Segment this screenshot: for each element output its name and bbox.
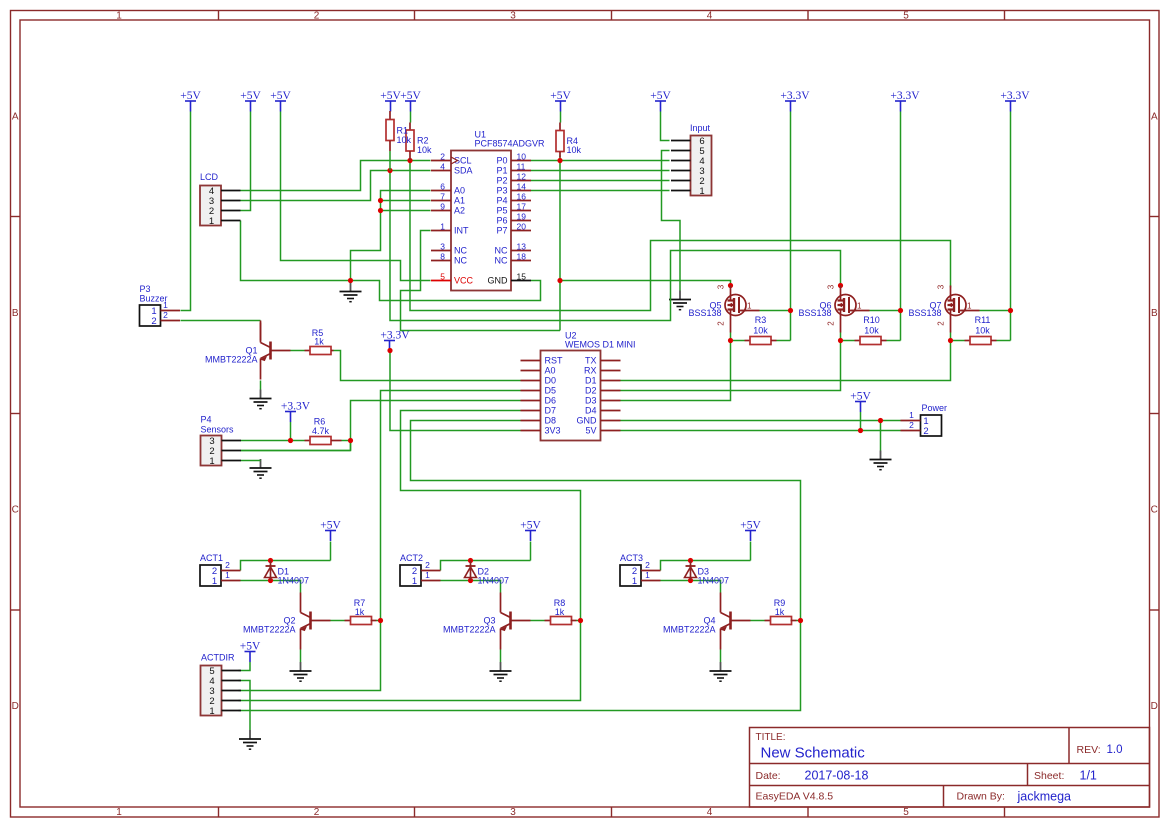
- wire +3.3V rail to R10/Q6 gate: [841, 112, 901, 341]
- svg-text:A2: A2: [454, 206, 465, 216]
- connector ACTDIR: [201, 653, 242, 718]
- svg-text:18: 18: [517, 252, 527, 262]
- svg-text:B: B: [1151, 308, 1158, 319]
- svg-text:R10: R10: [863, 315, 880, 325]
- svg-text:1: 1: [116, 807, 122, 818]
- svg-text:MMBT2222A: MMBT2222A: [243, 625, 296, 635]
- U2 pin D0: [521, 376, 557, 386]
- svg-text:A0: A0: [454, 186, 465, 196]
- mosfet Q7 BSS138: [908, 284, 979, 332]
- svg-text:17: 17: [517, 202, 527, 212]
- svg-text:Sensors: Sensors: [201, 425, 235, 435]
- svg-text:D5: D5: [545, 386, 557, 396]
- resistor R2 10k: [406, 123, 432, 161]
- svg-text:1: 1: [909, 410, 914, 420]
- wire D5 net (WEMOS D5 / R7 / ACTDIR pin3): [239, 391, 521, 691]
- U2 pin 3V3: [521, 426, 561, 436]
- svg-text:ACT3: ACT3: [620, 553, 643, 563]
- connector Power: [901, 403, 948, 437]
- svg-text:10k: 10k: [753, 326, 768, 336]
- wire +3.3V to WEMOS 3V3: [390, 351, 521, 431]
- mosfet Q5 BSS138: [688, 284, 759, 332]
- power flag +5V (R2): [400, 90, 421, 111]
- svg-text:NC: NC: [495, 246, 508, 256]
- power flag +5V (ACT2): [520, 520, 541, 541]
- wire ACTDIR pin4 to ground: [239, 681, 251, 731]
- wire P4 pin1 to ground: [241, 460, 261, 462]
- junction R10 left: [838, 338, 843, 343]
- junction Q5 drain: [728, 283, 733, 288]
- svg-text:BSS138: BSS138: [688, 308, 721, 318]
- wire ACT2 pin1 / D2 / Q3 collector: [441, 581, 501, 593]
- svg-text:P5: P5: [496, 206, 507, 216]
- resistor R5 1k: [305, 328, 334, 355]
- svg-text:MMBT2222A: MMBT2222A: [663, 625, 716, 635]
- svg-text:4: 4: [707, 11, 713, 22]
- ic U2 WEMOS D1 MINI: [541, 331, 636, 441]
- svg-text:1: 1: [225, 570, 230, 580]
- svg-text:MMBT2222A: MMBT2222A: [443, 625, 496, 635]
- svg-text:3: 3: [440, 242, 445, 252]
- ground (U1 A-net): [340, 283, 362, 302]
- svg-text:P1: P1: [496, 166, 507, 176]
- wire SCL net (U1 SCL / R2 / LCD pin4): [241, 161, 431, 191]
- U1 pin 19 P6: [496, 212, 531, 226]
- wire +5V to Input pin6: [661, 112, 670, 141]
- svg-text:RST: RST: [545, 356, 564, 366]
- wire Q2 emitter to ground: [300, 650, 302, 663]
- ic U1 PCF8574ADGVR: [451, 130, 545, 291]
- power flag +5V (R4): [550, 90, 571, 111]
- transistor Q2 MMBT2222A: [243, 593, 331, 650]
- wire +3.3V rail to R11/Q7 gate: [951, 112, 1011, 341]
- svg-text:C: C: [1151, 504, 1158, 515]
- wire U1 P0 to Input pin4: [531, 160, 670, 162]
- svg-text:1k: 1k: [314, 337, 324, 347]
- wire Q4 emitter to ground: [720, 650, 722, 663]
- svg-text:1: 1: [967, 302, 972, 311]
- wire R5 to WEMOS D0: [334, 351, 521, 381]
- wire ACT1 pin1 / D1 / Q2 collector: [241, 581, 301, 593]
- junction +3.3V R6: [288, 438, 293, 443]
- svg-text:D1: D1: [585, 376, 597, 386]
- wire R9 to D8 net: [797, 620, 801, 622]
- svg-text:1: 1: [209, 456, 214, 467]
- svg-text:13: 13: [517, 242, 527, 252]
- ground (Q4 emitter): [710, 662, 732, 681]
- wire SDA net (U1 SDA / R1 / LCD pin3): [241, 171, 431, 201]
- power flag +5V (U1 VCC): [270, 90, 291, 111]
- svg-text:LCD: LCD: [200, 172, 219, 182]
- wire WEMOS D2 to Q6 source: [621, 341, 841, 391]
- resistor R9 1k: [765, 598, 797, 625]
- svg-text:NC: NC: [495, 256, 508, 266]
- svg-text:A: A: [1151, 111, 1158, 122]
- wire R8 to D7 net: [577, 620, 581, 622]
- connector ACT1: [200, 553, 241, 587]
- svg-text:3: 3: [510, 807, 516, 818]
- U1 pin 3 NC: [431, 242, 467, 256]
- svg-text:2: 2: [425, 560, 430, 570]
- junction A2 gnd: [378, 208, 383, 213]
- ground (Q3 emitter): [490, 662, 512, 681]
- U1 pin 11 P1: [496, 162, 531, 176]
- svg-text:1: 1: [699, 186, 704, 197]
- svg-text:R1: R1: [397, 126, 409, 136]
- svg-text:Drawn By:: Drawn By:: [957, 791, 1005, 803]
- wire U1 P1 to Input pin3: [531, 170, 670, 172]
- power flag +5V (ACT1): [320, 520, 341, 541]
- junction Q6 drain: [838, 283, 843, 288]
- junction D1 top: [268, 558, 273, 563]
- junction D2 top: [468, 558, 473, 563]
- svg-text:TITLE:: TITLE:: [756, 732, 786, 743]
- svg-text:1.0: 1.0: [1107, 744, 1123, 756]
- U1 pin 17 P5: [496, 202, 531, 216]
- svg-text:16: 16: [517, 192, 527, 202]
- svg-text:9: 9: [440, 202, 445, 212]
- wire +5V to LCD pin2: [241, 112, 251, 211]
- junction D2 bottom: [468, 578, 473, 583]
- svg-text:NC: NC: [454, 256, 467, 266]
- junction R4/drain: [557, 278, 562, 283]
- svg-text:BSS138: BSS138: [798, 308, 831, 318]
- frame row ticks left: [11, 216, 21, 218]
- connector Input: [671, 123, 712, 197]
- U2 pin D7: [521, 406, 557, 416]
- svg-text:D7: D7: [545, 406, 557, 416]
- svg-text:ACT1: ACT1: [200, 553, 223, 563]
- svg-text:P7: P7: [496, 226, 507, 236]
- svg-text:D3: D3: [585, 396, 597, 406]
- svg-text:VCC: VCC: [454, 276, 474, 286]
- wire Q1 emitter to ground: [260, 381, 262, 390]
- U1 pin 16 P4: [496, 192, 531, 206]
- junction R4/P0: [557, 158, 562, 163]
- power flag +3.3V (Q6 rail): [890, 90, 920, 111]
- U1 pin 10 P0: [496, 152, 531, 166]
- svg-text:INT: INT: [454, 226, 469, 236]
- svg-text:1: 1: [857, 302, 862, 311]
- wire Input pin5 to ground: [662, 151, 681, 291]
- power flag +3.3V (Q5 rail): [780, 90, 810, 111]
- svg-text:2: 2: [440, 152, 445, 162]
- svg-text:D: D: [12, 701, 19, 712]
- svg-text:P4: P4: [201, 415, 212, 425]
- wire SCL to Q7 drain: [410, 161, 951, 311]
- junction Q7 gate: [1008, 308, 1013, 313]
- resistor R7 1k: [345, 598, 377, 625]
- connector ACT3: [620, 553, 661, 587]
- wire buzzer pin2 to Q1 collector: [181, 320, 261, 322]
- junction A1 gnd: [378, 198, 383, 203]
- junction Q6 gate: [898, 308, 903, 313]
- wire Power ground drop: [880, 421, 882, 451]
- junction R9/D8: [798, 618, 803, 623]
- junction +5V Power: [858, 428, 863, 433]
- U1 pin 6 A0: [431, 182, 465, 196]
- svg-text:4.7k: 4.7k: [312, 426, 330, 436]
- wire D6 net (WEMOS D6 / R6): [241, 401, 521, 451]
- wire P4 pin3 / R6 net: [241, 422, 351, 451]
- svg-text:12: 12: [517, 172, 527, 182]
- svg-text:2: 2: [923, 426, 928, 437]
- frame column ticks bottom: [218, 807, 220, 817]
- U1 pin 13 NC: [495, 242, 532, 256]
- connector P3 Buzzer: [140, 284, 181, 327]
- svg-text:8: 8: [440, 252, 445, 262]
- U2 pin D4: [585, 406, 621, 416]
- power flag +3.3V (R6): [281, 401, 311, 422]
- wire U1 GND net: [351, 281, 541, 301]
- svg-text:1: 1: [209, 216, 214, 227]
- power flag +5V (buzzer rail): [180, 90, 201, 111]
- svg-text:REV:: REV:: [1077, 744, 1101, 756]
- svg-text:P0: P0: [496, 156, 507, 166]
- svg-text:WEMOS D1 MINI: WEMOS D1 MINI: [565, 340, 636, 350]
- wire WEMOS D3 to Q5 source: [621, 341, 731, 401]
- svg-text:Sheet:: Sheet:: [1034, 770, 1064, 782]
- U1 pin 1 INT: [431, 222, 469, 236]
- junction R1/SDA: [387, 168, 392, 173]
- wire R7 to D5 net: [377, 620, 381, 622]
- junction R6/D6: [348, 438, 353, 443]
- U2 pin RX: [584, 366, 621, 376]
- svg-text:1N4007: 1N4007: [698, 576, 730, 586]
- resistor R8 1k: [545, 598, 577, 625]
- svg-text:19: 19: [517, 212, 527, 222]
- junction GND Power: [878, 418, 883, 423]
- U2 pin GND: [577, 416, 621, 426]
- svg-text:New Schematic: New Schematic: [761, 745, 866, 762]
- svg-text:5: 5: [903, 11, 909, 22]
- svg-text:B: B: [12, 308, 19, 319]
- U2 pin RST: [521, 356, 564, 366]
- U1 pin 4 SDA: [431, 162, 473, 176]
- svg-text:P4: P4: [496, 196, 507, 206]
- svg-text:5V: 5V: [585, 426, 596, 436]
- svg-text:20: 20: [517, 222, 527, 232]
- svg-text:Input: Input: [690, 123, 711, 133]
- U1 pin 5 VCC: [431, 272, 474, 286]
- wire +5V to R2: [410, 112, 412, 123]
- svg-text:jackmega: jackmega: [1017, 790, 1072, 804]
- svg-text:1k: 1k: [775, 607, 785, 617]
- wire D8 net (WEMOS D8 / R9 / ACTDIR pin1): [239, 421, 801, 711]
- svg-text:D8: D8: [545, 416, 557, 426]
- svg-text:D: D: [1151, 701, 1158, 712]
- svg-text:15: 15: [517, 272, 527, 282]
- power flag +3.3V (Q7 rail): [1000, 90, 1030, 111]
- svg-text:R2: R2: [417, 136, 429, 146]
- svg-text:2: 2: [314, 11, 320, 22]
- U2 pin D6: [521, 396, 557, 406]
- ground (P4 pin1): [250, 459, 272, 478]
- svg-text:10k: 10k: [975, 326, 990, 336]
- svg-text:2: 2: [909, 420, 914, 430]
- wire Q1 base to R5: [291, 350, 305, 352]
- svg-text:R11: R11: [975, 315, 991, 325]
- svg-text:R6: R6: [314, 417, 326, 427]
- svg-text:1: 1: [747, 302, 752, 311]
- junction R3 left: [728, 338, 733, 343]
- svg-text:GND: GND: [488, 276, 509, 286]
- wire WEMOS D1 to Q7 source: [621, 341, 951, 381]
- svg-text:4: 4: [440, 162, 445, 172]
- junction D3 bottom: [688, 578, 693, 583]
- U1 pin 15 GND: [488, 272, 532, 286]
- svg-text:P6: P6: [496, 216, 507, 226]
- U2 pin TX: [585, 356, 621, 366]
- wire ACTDIR pin5 +5V: [239, 662, 251, 671]
- frame column ticks top: [218, 11, 220, 21]
- ground (Q1 emitter): [250, 390, 272, 409]
- svg-text:14: 14: [517, 182, 527, 192]
- svg-text:TX: TX: [585, 356, 597, 366]
- svg-text:10k: 10k: [567, 145, 582, 155]
- svg-text:1: 1: [212, 576, 217, 587]
- ground (ACTDIR pin4): [239, 730, 261, 749]
- title block: [750, 728, 1150, 808]
- svg-text:1: 1: [440, 222, 445, 232]
- junction R11 left: [948, 338, 953, 343]
- svg-text:3V3: 3V3: [545, 426, 561, 436]
- svg-text:MMBT2222A: MMBT2222A: [205, 355, 258, 365]
- svg-text:P3: P3: [496, 186, 507, 196]
- U1 pin 7 A1: [431, 192, 465, 206]
- wire U1 A0 A1 A2 ground net: [241, 191, 431, 281]
- U2 pin D2: [585, 386, 621, 396]
- svg-text:5: 5: [903, 807, 909, 818]
- svg-text:1: 1: [632, 576, 637, 587]
- svg-text:10k: 10k: [397, 135, 412, 145]
- svg-text:2: 2: [645, 560, 650, 570]
- U2 pin A0: [521, 366, 556, 376]
- svg-text:A: A: [12, 111, 19, 122]
- wire U1 INT / R4 net: [401, 156, 561, 331]
- svg-text:2017-08-18: 2017-08-18: [805, 769, 869, 783]
- junction D3 top: [688, 558, 693, 563]
- wire U1 P2 to Input pin2: [531, 180, 670, 182]
- svg-text:A0: A0: [545, 366, 556, 376]
- wire U1 P3 to Input pin1: [531, 190, 670, 192]
- transistor Q3 MMBT2222A: [443, 593, 531, 650]
- svg-text:EasyEDA V4.8.5: EasyEDA V4.8.5: [756, 791, 834, 803]
- wire +5V to U1 VCC: [281, 112, 431, 281]
- power flag +5V (ACTDIR): [240, 641, 261, 662]
- connector ACT2: [400, 553, 441, 587]
- resistor R10 10k: [855, 315, 887, 345]
- U1 pin 2 SCL: [431, 152, 472, 166]
- resistor R3 10k: [745, 315, 777, 345]
- U1 pin 20 P7: [496, 222, 531, 236]
- svg-text:7: 7: [440, 192, 445, 202]
- transistor Q4 MMBT2222A: [663, 593, 751, 650]
- svg-text:2: 2: [151, 316, 156, 327]
- svg-text:R3: R3: [755, 315, 767, 325]
- svg-text:A1: A1: [454, 196, 465, 206]
- frame row ticks right: [1150, 216, 1160, 218]
- svg-text:1: 1: [209, 706, 214, 717]
- wire ACT3 pin2 +5V: [661, 542, 751, 571]
- wire Q3 base to R8: [531, 620, 545, 622]
- svg-text:1: 1: [645, 570, 650, 580]
- U2 pin D1: [585, 376, 621, 386]
- junction +3.3V 3V3: [387, 348, 392, 353]
- svg-text:1/1: 1/1: [1080, 769, 1097, 783]
- U1 pin 14 P3: [496, 182, 531, 196]
- svg-text:2: 2: [225, 560, 230, 570]
- svg-text:2: 2: [937, 321, 946, 326]
- wire Q4 base to R9: [751, 620, 765, 622]
- svg-text:5: 5: [440, 272, 445, 282]
- U2 pin D5: [521, 386, 557, 396]
- svg-text:ACTDIR: ACTDIR: [201, 653, 235, 663]
- svg-text:GND: GND: [577, 416, 598, 426]
- U1 pin 12 P2: [496, 172, 531, 186]
- svg-text:1: 1: [116, 11, 122, 22]
- svg-text:RX: RX: [584, 366, 597, 376]
- U2 pin D3: [585, 396, 621, 406]
- diode D3 1N4007: [685, 561, 730, 586]
- power flag +5V (R1): [380, 90, 401, 111]
- wire ACT1 pin2 +5V: [241, 542, 331, 571]
- svg-text:SDA: SDA: [454, 166, 473, 176]
- svg-text:2: 2: [717, 321, 726, 326]
- wire D7 net (WEMOS D7 / R8 / ACTDIR pin2): [239, 411, 581, 701]
- power flag +5V (LCD pin2): [240, 90, 261, 111]
- power flag +3.3V (U2 3V3): [380, 330, 410, 351]
- power flag +5V (Power conn): [850, 391, 871, 412]
- svg-text:3: 3: [717, 284, 726, 289]
- diode D2 1N4007: [465, 561, 510, 586]
- U1 pin 9 A2: [431, 202, 465, 216]
- svg-text:2: 2: [827, 321, 836, 326]
- wire WEMOS 5V row to Power pin2: [621, 430, 901, 432]
- svg-text:3: 3: [827, 284, 836, 289]
- wire SDA to Q6 drain: [390, 171, 841, 321]
- svg-text:PCF8574ADGVR: PCF8574ADGVR: [475, 139, 546, 149]
- wire +5V to R4: [560, 112, 562, 123]
- power flag +5V (ACT3): [740, 520, 761, 541]
- wire WEMOS GND row to Power pin1: [621, 420, 901, 422]
- svg-text:1N4007: 1N4007: [278, 576, 310, 586]
- wire Q3 emitter to ground: [500, 650, 502, 663]
- svg-text:NC: NC: [454, 246, 467, 256]
- wire +3.3V rail to R3/Q5 gate: [731, 112, 791, 341]
- connector P4 Sensors: [201, 415, 242, 468]
- svg-text:4: 4: [707, 807, 713, 818]
- resistor R1 10k: [386, 111, 412, 171]
- junction gnd node: [348, 278, 353, 283]
- svg-text:3: 3: [937, 284, 946, 289]
- junction R2/SCL: [407, 158, 412, 163]
- svg-text:1: 1: [425, 570, 430, 580]
- svg-text:Date:: Date:: [756, 770, 781, 782]
- svg-text:1: 1: [412, 576, 417, 587]
- U1 SCL clock wedge: [451, 157, 458, 164]
- junction Q5 gate: [788, 308, 793, 313]
- svg-text:1k: 1k: [355, 607, 365, 617]
- wire Q2 base to R7: [331, 620, 345, 622]
- wire +5V stem at Power: [860, 412, 862, 431]
- power flag +5V (Input): [650, 90, 671, 111]
- wire P0 drain line to Q5: [560, 281, 731, 286]
- ground (Q2 emitter): [290, 662, 312, 681]
- svg-text:D4: D4: [585, 406, 597, 416]
- svg-text:1N4007: 1N4007: [478, 576, 510, 586]
- svg-text:BSS138: BSS138: [908, 308, 941, 318]
